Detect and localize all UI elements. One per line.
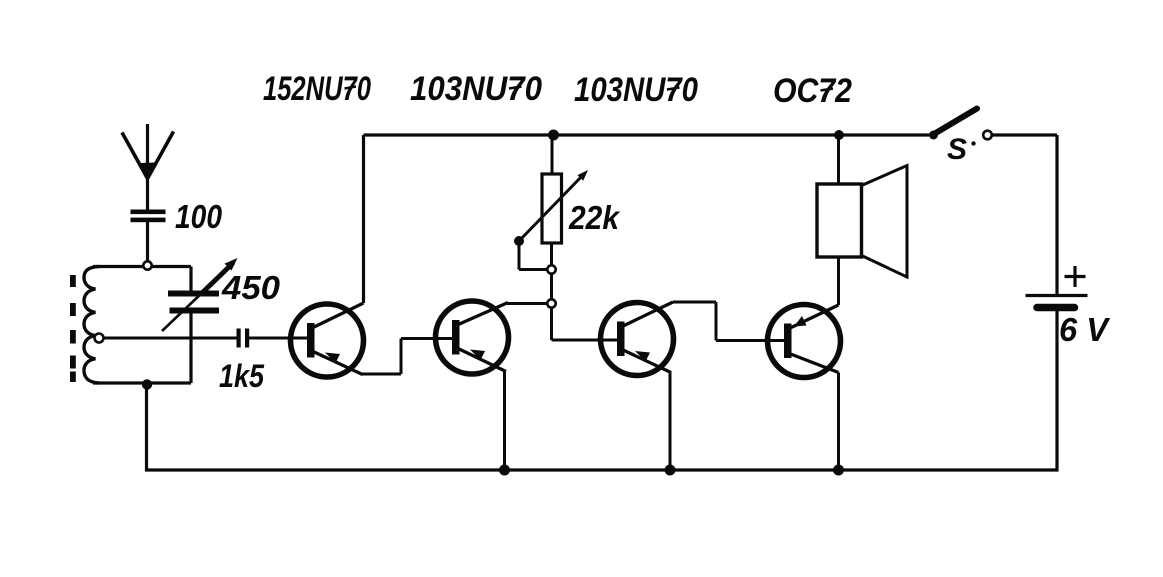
coil tap node [95, 334, 104, 343]
battery B1 [1026, 296, 1088, 308]
wire T3 emitter to bottom rail [669, 371, 672, 470]
variable capacitor C2 450 [168, 267, 219, 384]
node tank top [143, 261, 151, 269]
wire tank bottom [93, 381, 191, 384]
svg-text:6 V: 6 V [1059, 311, 1111, 348]
svg-text:OC72: OC72 [773, 72, 852, 110]
dot after S [971, 141, 975, 145]
transistor T4 OC72 [768, 305, 841, 378]
svg-text:152NU70: 152NU70 [263, 70, 371, 108]
wire C1 to tank top [146, 222, 149, 262]
transistor T1 152NU70 [291, 303, 364, 377]
junction dot T3 emitter / rail [665, 465, 676, 476]
wire T2 emitter to bottom rail [503, 371, 506, 471]
wire speaker to top rail [837, 135, 840, 184]
wire tap to C3 [104, 337, 237, 340]
capacitor C3 1k5 [237, 329, 250, 348]
wire R1 bottom to jack node 1 [550, 243, 553, 266]
node jack 2 [547, 299, 555, 307]
transistor T3 103NU70 [601, 302, 674, 376]
svg-text:22k: 22k [568, 199, 620, 236]
wire T1 emitter to T2 base [361, 339, 453, 375]
resistor R1 22k [542, 174, 562, 243]
wire switch to battery [992, 135, 1057, 294]
svg-text:103NU70: 103NU70 [410, 70, 542, 108]
node jack 1 [547, 265, 555, 273]
antenna [122, 124, 174, 210]
wire T2 collector to jack node [506, 302, 547, 305]
junction dot T2 emitter / rail [499, 465, 510, 476]
svg-text:103NU70: 103NU70 [574, 71, 698, 109]
wire rail to R1 [551, 135, 554, 174]
junction dot rail / 22k [548, 130, 559, 141]
svg-text:450: 450 [221, 269, 281, 306]
switch S [929, 109, 992, 140]
wire wiper to jack node 1 [519, 241, 547, 270]
bottom rail [145, 468, 1059, 471]
transistor T2 103NU70 [436, 301, 509, 374]
node tank bottom [142, 379, 152, 389]
arrow R1 wiper [514, 170, 588, 246]
wire battery to bottom rail [1055, 308, 1058, 471]
wire T1 collector to top rail [362, 135, 365, 303]
junction dot T4 collector / rail [833, 465, 844, 476]
wire T3 collector to T4 base [673, 302, 785, 341]
svg-text:1k5: 1k5 [219, 358, 265, 394]
wire T4 emitter to speaker [837, 257, 840, 305]
wire tank top [93, 265, 191, 268]
speaker LS1 [817, 166, 907, 278]
top rail [364, 133, 930, 136]
svg-text:100: 100 [175, 198, 223, 235]
wire tank bottom to bottom rail [145, 385, 148, 471]
coil core dashes [70, 275, 76, 382]
junction dot rail / speaker [834, 130, 844, 140]
wire T4 collector to bottom rail [837, 373, 840, 471]
coil L1 [84, 267, 99, 384]
arrow C2 adjustment [162, 258, 238, 331]
wire jack 1 to jack 2 [550, 274, 553, 300]
wire C3 to T1 base [249, 337, 308, 340]
wire jack 2 to T3 base [552, 308, 619, 341]
svg-text:S: S [947, 133, 967, 166]
label plus [1065, 266, 1086, 287]
capacitor C1 100 [131, 210, 166, 223]
